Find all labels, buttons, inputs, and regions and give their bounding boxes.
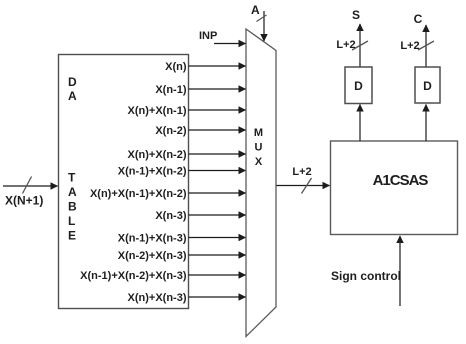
wire row5 bbox=[189, 153, 246, 155]
svg-text:Sign control: Sign control bbox=[331, 269, 401, 283]
svg-text:D: D bbox=[354, 79, 363, 93]
slash A bbox=[257, 15, 267, 22]
wire A bbox=[263, 11, 265, 41]
svg-text:B: B bbox=[68, 200, 77, 214]
mux MUX bbox=[246, 29, 276, 337]
wire X(N+1) bbox=[3, 185, 58, 187]
svg-text:U: U bbox=[255, 142, 263, 154]
wire C out bbox=[425, 25, 427, 67]
wire row12 bbox=[189, 296, 246, 298]
svg-text:X(n): X(n) bbox=[165, 61, 187, 73]
wire A1CSAS to D right bbox=[425, 105, 427, 142]
wire row9 bbox=[189, 237, 246, 239]
svg-text:L+2: L+2 bbox=[292, 166, 311, 178]
svg-text:X(n-1)+X(n-2): X(n-1)+X(n-2) bbox=[118, 166, 187, 178]
wire S out bbox=[359, 24, 361, 67]
svg-text:A: A bbox=[68, 89, 77, 103]
svg-text:L: L bbox=[68, 214, 75, 228]
wire row7 bbox=[189, 192, 246, 194]
register D left bbox=[345, 67, 372, 104]
svg-text:X: X bbox=[255, 156, 263, 168]
register D right bbox=[415, 67, 440, 103]
block A1CSAS bbox=[331, 141, 458, 235]
svg-text:X(n)+X(n-2): X(n)+X(n-2) bbox=[128, 149, 187, 161]
svg-text:T: T bbox=[68, 171, 76, 185]
svg-text:A1CSAS: A1CSAS bbox=[373, 172, 429, 189]
svg-text:X(N+1): X(N+1) bbox=[5, 194, 43, 208]
svg-text:D: D bbox=[68, 75, 77, 89]
svg-text:X(n)+X(n-3): X(n)+X(n-3) bbox=[128, 292, 187, 304]
svg-text:A: A bbox=[251, 3, 260, 17]
slash X(N+1) bbox=[23, 177, 32, 194]
svg-text:INP: INP bbox=[199, 30, 217, 42]
wire row1 bbox=[189, 65, 246, 67]
svg-text:X(n-1)+X(n-2)+X(n-3): X(n-1)+X(n-2)+X(n-3) bbox=[80, 270, 187, 282]
wire row8 bbox=[189, 214, 246, 216]
svg-text:E: E bbox=[68, 229, 76, 243]
svg-text:S: S bbox=[352, 8, 360, 22]
slash C bbox=[418, 41, 434, 50]
slash S bbox=[352, 41, 368, 50]
wire mux out bbox=[277, 185, 330, 187]
wire row6 bbox=[189, 170, 246, 172]
wire row11 bbox=[189, 274, 246, 276]
svg-text:X(n-3): X(n-3) bbox=[155, 210, 187, 222]
slash mux out bbox=[302, 178, 312, 194]
svg-text:M: M bbox=[254, 127, 263, 139]
wire row10 bbox=[189, 254, 246, 256]
svg-text:X(n-2): X(n-2) bbox=[155, 125, 187, 137]
wire INP bbox=[214, 43, 246, 45]
svg-text:D: D bbox=[423, 79, 432, 93]
svg-text:X(n-2)+X(n-3): X(n-2)+X(n-3) bbox=[118, 250, 187, 262]
svg-text:A: A bbox=[68, 185, 77, 199]
wire A1CSAS to D left bbox=[359, 105, 361, 142]
svg-text:L+2: L+2 bbox=[400, 40, 419, 52]
svg-text:X(n)+X(n-1): X(n)+X(n-1) bbox=[128, 105, 187, 117]
DA table box bbox=[59, 55, 189, 309]
wire sign control bbox=[399, 236, 401, 306]
wire row4 bbox=[189, 129, 246, 131]
svg-text:L+2: L+2 bbox=[336, 39, 355, 51]
wire row3 bbox=[189, 109, 246, 111]
wire row2 bbox=[189, 88, 246, 90]
svg-text:X(n)+X(n-1)+X(n-2): X(n)+X(n-1)+X(n-2) bbox=[90, 188, 187, 200]
svg-text:C: C bbox=[414, 12, 423, 26]
svg-text:X(n-1)+X(n-3): X(n-1)+X(n-3) bbox=[118, 233, 187, 245]
svg-text:X(n-1): X(n-1) bbox=[155, 84, 187, 96]
